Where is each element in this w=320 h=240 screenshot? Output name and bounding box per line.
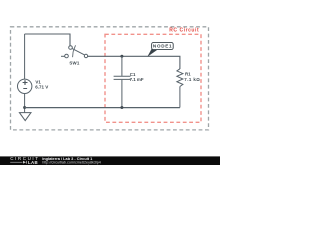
footer black bar xyxy=(0,156,220,165)
svg-text:RC Circuit: RC Circuit xyxy=(169,28,199,34)
node junction top of C1 xyxy=(120,55,123,58)
node label NODE1 box xyxy=(152,42,174,49)
svg-text:R1: R1 xyxy=(185,72,191,77)
wire V1 bottom vertical xyxy=(24,94,26,113)
blade xyxy=(72,49,84,55)
voltage source V1 xyxy=(18,79,32,93)
outer gray dashed border xyxy=(11,27,209,130)
svg-text:NODE1: NODE1 xyxy=(153,44,172,49)
wire mid rail switch to R1 corner xyxy=(88,56,180,69)
wire top rail V1 to switch xyxy=(25,34,70,46)
switch SW1 xyxy=(61,45,88,58)
red dashed box RC Circuit xyxy=(105,34,201,122)
resistor R1 zigzag xyxy=(177,69,183,87)
actuator tick xyxy=(73,45,76,57)
svg-text:SW1: SW1 xyxy=(69,60,80,65)
svg-text:7.1 mF: 7.1 mF xyxy=(130,77,144,82)
open stub terminal xyxy=(61,55,65,57)
label V1 value xyxy=(35,79,48,89)
svg-text:LAB: LAB xyxy=(28,160,38,165)
capacitor C1 plates xyxy=(114,76,131,79)
wire V1 top vertical xyxy=(24,34,26,79)
label C1 value xyxy=(130,72,144,82)
node label NODE1 pointer xyxy=(148,49,158,57)
wire C1 top xyxy=(121,56,123,76)
svg-text:http://circuitlab.com/cme62ey8: http://circuitlab.com/cme62ey8k3lp4 xyxy=(42,160,101,164)
wire C1 bottom xyxy=(121,80,123,108)
ground xyxy=(19,113,31,121)
svg-text:7.1 kΩ: 7.1 kΩ xyxy=(184,77,200,82)
node junction V1 bottom rail xyxy=(23,106,26,109)
svg-text:6.71 V: 6.71 V xyxy=(35,85,48,90)
logo CIRCUIT LAB xyxy=(10,156,39,165)
wire R1 bottom xyxy=(179,87,181,108)
wire bottom rail xyxy=(25,107,180,109)
label R1 value xyxy=(184,72,200,83)
node junction bottom of C1 xyxy=(120,106,123,109)
